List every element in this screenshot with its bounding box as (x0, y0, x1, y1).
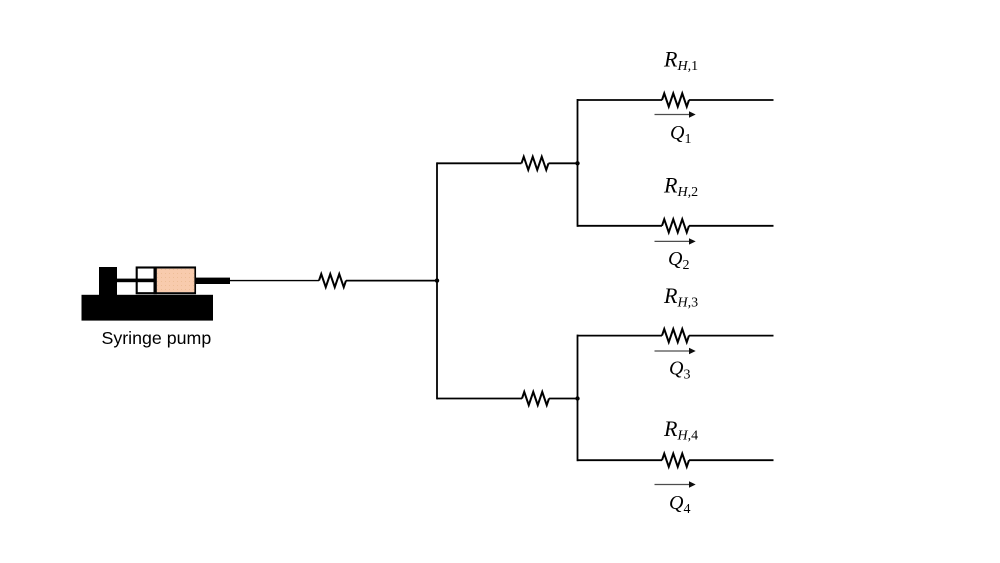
wire upper branch left (437, 162, 522, 164)
node B (upper junction) (575, 161, 579, 165)
node A (main junction) (435, 278, 439, 282)
syringe pump (82, 267, 231, 321)
svg-text:Q1: Q1 (670, 122, 691, 147)
wire lower branch right (549, 398, 578, 400)
wire branch 2 right (689, 225, 774, 227)
resistor upper-mid (522, 157, 549, 170)
svg-text:Syringe pump: Syringe pump (102, 328, 212, 348)
wire R0 to node A (346, 280, 437, 282)
wire branch 2 left (578, 225, 663, 227)
svg-text:Q4: Q4 (669, 492, 690, 517)
wire pump to resistor R0 (230, 280, 320, 282)
resistor R0 (main) (319, 274, 346, 287)
wire lower junction vertical (577, 335, 579, 462)
wire branch 1 right (689, 99, 774, 101)
wire branch 4 left (578, 459, 663, 461)
svg-text:RH,3: RH,3 (663, 283, 698, 311)
svg-text:RH,1: RH,1 (663, 47, 698, 75)
wire upper branch right (549, 162, 578, 164)
arrow Q4 (655, 481, 696, 487)
arrow Q3 (655, 348, 696, 354)
wire trunk vertical (436, 162, 438, 399)
svg-text:Q2: Q2 (668, 248, 689, 273)
svg-text:RH,4: RH,4 (663, 416, 698, 444)
resistor RH2 (662, 219, 689, 232)
resistor RH1 (662, 93, 689, 106)
wire branch 3 right (689, 335, 774, 337)
wire branch 1 left (578, 99, 663, 101)
wire branch 4 right (689, 459, 774, 461)
arrow Q2 (655, 238, 696, 244)
resistor RH3 (662, 329, 689, 342)
wire branch 3 left (578, 335, 663, 337)
node C (lower junction) (575, 396, 579, 400)
arrow Q1 (655, 111, 696, 117)
wire upper junction vertical (577, 99, 579, 227)
resistor lower-mid (522, 392, 549, 405)
svg-text:Q3: Q3 (669, 358, 690, 383)
svg-text:RH,2: RH,2 (663, 172, 698, 200)
resistor RH4 (662, 454, 689, 467)
wire lower branch left (437, 398, 522, 400)
